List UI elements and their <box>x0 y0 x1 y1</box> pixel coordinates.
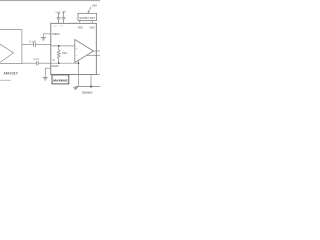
wire disable rail <box>76 86 101 88</box>
part label box U2 <box>52 75 69 84</box>
svg-text:DISABLE: DISABLE <box>82 90 93 94</box>
svg-text:+5V: +5V <box>92 3 97 7</box>
node B junction <box>58 62 60 64</box>
node C junction <box>78 62 80 64</box>
node D junction <box>90 86 92 88</box>
ground G1 <box>41 37 46 39</box>
wire Qbar output <box>87 54 100 56</box>
wire U1 out bottom <box>22 62 36 64</box>
wire GNDIN pin <box>43 33 50 35</box>
svg-text:V DD: V DD <box>89 26 94 30</box>
comparator U2 triangle <box>75 40 94 63</box>
wire IN inside <box>51 62 79 64</box>
+5V arrow <box>88 7 91 13</box>
wire Q output <box>94 50 101 52</box>
capacitor C2 1uF <box>35 61 37 65</box>
svg-text:V+: V+ <box>61 26 65 28</box>
wire GND pin 2 <box>45 67 51 69</box>
capacitor C3 on V+ <box>58 19 60 23</box>
wire bottom edge stub right <box>96 74 100 76</box>
svg-text:1µF: 1µF <box>62 11 67 13</box>
ground G2 <box>43 77 48 79</box>
svg-text:V+: V+ <box>54 26 58 28</box>
svg-text:V DD: V DD <box>78 26 83 30</box>
svg-text:0.1µF: 0.1µF <box>29 41 36 44</box>
IC U2 box <box>51 23 97 74</box>
node A junction <box>58 45 60 47</box>
wire C2 to U2 <box>38 62 51 64</box>
svg-text:IN: IN <box>52 60 55 62</box>
top page rule <box>0 0 100 1</box>
svg-text:GNDIN: GNDIN <box>52 32 60 36</box>
comparator U1 box (left, MAX915) <box>0 30 22 64</box>
svg-text:−: − <box>76 53 78 57</box>
svg-text:+: + <box>76 47 78 51</box>
svg-text:MAX9693: MAX9693 <box>53 78 67 82</box>
svg-text:1MΩ: 1MΩ <box>62 52 68 55</box>
ground G3 <box>75 86 77 89</box>
svg-text:1µF: 1µF <box>33 57 39 61</box>
wire IN+ inside <box>51 45 75 47</box>
wire U1 out top <box>22 44 34 46</box>
svg-text:0.1µF: 0.1µF <box>56 12 62 14</box>
wire B1 VDD stubs <box>79 20 81 23</box>
svg-text:SUPPLY FILT: SUPPLY FILT <box>79 16 95 20</box>
capacitor C1 0.1uF <box>33 43 35 47</box>
op-amp U1 triangle <box>0 44 14 62</box>
wire disable drop <box>90 75 92 87</box>
wire disable stub left <box>0 79 11 81</box>
svg-text:MAX915: MAX915 <box>4 70 19 75</box>
supply box B1 <box>78 13 97 20</box>
resistor R1 <box>57 46 60 63</box>
wire latch drop <box>78 60 80 86</box>
wire C1 to U2 <box>36 44 51 46</box>
capacitor C4 on V+ <box>63 19 65 23</box>
svg-text:GNDIN: GNDIN <box>52 66 59 68</box>
